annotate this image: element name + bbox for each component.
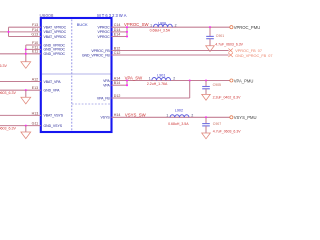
wire VPA pin B14 stub xyxy=(112,84,128,86)
value C905 2.2uF_0402_6.3V xyxy=(213,95,241,99)
part value MT6323WA xyxy=(97,13,127,18)
U6008 right pin numbers xyxy=(114,23,121,117)
svg-text:1: 1 xyxy=(166,113,168,117)
ground C901 xyxy=(206,46,215,52)
svg-text:L901: L901 xyxy=(157,73,165,77)
U6008 left pin numbers xyxy=(31,23,38,125)
wire VPROC_FB pin B12 xyxy=(112,49,229,51)
junction GND_VPROC E11 xyxy=(25,53,27,55)
svg-text:6.3V: 6.3V xyxy=(0,64,7,68)
svg-text:2: 2 xyxy=(175,23,177,27)
svg-text:U6008: U6008 xyxy=(40,13,54,18)
ground C905 xyxy=(202,94,211,100)
svg-text:4.7uF_0603_6.3V: 4.7uF_0603_6.3V xyxy=(215,42,243,46)
pin 2 L902 xyxy=(191,113,193,117)
svg-text:VPA: VPA xyxy=(103,79,110,83)
value L901 2.2uH_1.76A xyxy=(147,82,168,86)
U6008 right pin names xyxy=(82,26,110,120)
svg-text:GND_VPROC_FB: GND_VPROC_FB xyxy=(82,53,110,57)
IC U6008 MT6323WA PMIC body xyxy=(41,18,112,132)
svg-text:H13: H13 xyxy=(32,111,39,115)
svg-text:2.2uH_1.76A: 2.2uH_1.76A xyxy=(147,82,168,86)
svg-text:VBAT_VPROC: VBAT_VPROC xyxy=(44,26,67,30)
svg-text:C905: C905 xyxy=(213,83,221,87)
svg-text:0.68uH_3.5A: 0.68uH_3.5A xyxy=(168,122,189,126)
wire GND_VPROC pin F11 xyxy=(26,48,41,50)
svg-text:VPA_SW: VPA_SW xyxy=(125,76,144,81)
svg-text:D12: D12 xyxy=(114,94,121,98)
svg-text:F10: F10 xyxy=(32,41,38,45)
svg-text:1: 1 xyxy=(149,77,151,81)
svg-text:F13: F13 xyxy=(32,23,38,27)
net label VPA_SW xyxy=(125,76,144,81)
wire VPA right vertical join xyxy=(126,81,128,86)
svg-text:0603_6.3V: 0603_6.3V xyxy=(0,127,16,131)
junction VPA B14 xyxy=(126,84,128,86)
value L900 0.68uH_3.5A xyxy=(150,28,171,32)
svg-text:GND_VPROC: GND_VPROC xyxy=(44,52,66,56)
off-page connector GND_VPROC_FB xyxy=(228,53,232,57)
wire GND_VPA ground stem xyxy=(25,90,27,97)
wire VPA output net xyxy=(112,79,230,81)
junction VPA A14 xyxy=(126,79,128,81)
wire VPROC pin D14 stub xyxy=(112,31,128,33)
junction GND_VPROC F11 xyxy=(25,48,27,50)
svg-text:G11: G11 xyxy=(32,122,39,126)
ground GND_VSYS xyxy=(21,132,31,139)
svg-text:0.68uH_3.5A: 0.68uH_3.5A xyxy=(150,28,171,32)
junction VPA feedback xyxy=(189,79,191,81)
pin 1 L902 xyxy=(166,113,168,117)
off-page connector VPROC_PMU xyxy=(230,26,233,29)
svg-text:GND_VPROC: GND_VPROC xyxy=(44,48,66,52)
cap value fragment 0603_6.3V VPA xyxy=(0,91,16,95)
cap value fragment 6.3V xyxy=(0,64,7,68)
svg-text:VPA_FB: VPA_FB xyxy=(97,96,110,100)
junction VPROC D14 xyxy=(126,31,128,33)
U6008 section divider VPA/VSYS xyxy=(72,103,111,105)
pin 1 L901 xyxy=(149,77,151,81)
svg-text:VSYS: VSYS xyxy=(101,116,111,120)
inductor L901 xyxy=(152,78,171,81)
ground GND_VPROC xyxy=(21,62,31,69)
svg-text:BUCK: BUCK xyxy=(77,22,88,27)
inductor L900 xyxy=(154,24,173,27)
net label VPROC_FB 07 xyxy=(235,49,262,53)
svg-text:4.7uF_0603_6.3V: 4.7uF_0603_6.3V xyxy=(213,129,241,133)
off-page connector VSYS_PMU xyxy=(230,116,233,119)
svg-text:2: 2 xyxy=(173,77,175,81)
U6008 left pin names xyxy=(44,26,67,128)
svg-text:F14: F14 xyxy=(32,28,38,32)
junction VPROC E14 xyxy=(126,35,128,37)
net label GND_VPROC_FB 07 xyxy=(235,54,272,58)
U6008 internal section divider vertical xyxy=(71,20,73,131)
svg-text:A12: A12 xyxy=(32,77,38,81)
svg-text:F11: F11 xyxy=(32,45,38,49)
wire VPROC right vertical join xyxy=(126,27,128,36)
wire VBAT_VPROC pin G13 xyxy=(9,35,41,37)
junction VBAT_VPROC xyxy=(7,31,9,33)
wire VPROC pin E14 stub xyxy=(112,35,128,37)
refdes L902 xyxy=(175,109,183,113)
svg-text:VBAT_VPROC: VBAT_VPROC xyxy=(44,35,67,39)
pin 2 L900 xyxy=(175,23,177,27)
junction GND_VPA xyxy=(25,89,27,91)
junction GND_VSYS xyxy=(25,125,27,127)
svg-text:E13: E13 xyxy=(32,86,38,90)
value C907 4.7uF_0603_6.3V xyxy=(213,129,241,133)
wire GND_VSYS pin G11 xyxy=(0,125,41,127)
svg-text:E14: E14 xyxy=(114,32,120,36)
svg-text:L902: L902 xyxy=(175,109,183,113)
net label VSYS_PMU xyxy=(234,115,257,120)
svg-text:2: 2 xyxy=(191,113,193,117)
svg-text:VPROC_FB 07: VPROC_FB 07 xyxy=(235,49,262,53)
junction VPROC cap tap xyxy=(209,26,211,28)
svg-text:0603_6.3V: 0603_6.3V xyxy=(0,91,16,95)
svg-text:VPROC_FB: VPROC_FB xyxy=(91,49,110,53)
svg-text:VPA: VPA xyxy=(103,84,110,88)
wire VPA_FB vertical xyxy=(189,81,191,99)
value L902 0.68uH_3.5A xyxy=(168,122,189,126)
svg-text:A14: A14 xyxy=(114,76,120,80)
wire GND_VPROC vertical join xyxy=(25,45,27,62)
capacitor C907 xyxy=(202,117,210,133)
wire GND_VPROC pin E11 from edge xyxy=(0,53,41,55)
wire GND_VPROC pin F10 xyxy=(26,44,41,46)
svg-text:B12: B12 xyxy=(114,46,120,50)
ground C907 xyxy=(202,133,211,139)
svg-text:C907: C907 xyxy=(213,122,221,126)
svg-text:VBAT_VPROC: VBAT_VPROC xyxy=(44,30,67,34)
svg-text:VBAT_VPA: VBAT_VPA xyxy=(44,80,62,84)
ground GND_VPA xyxy=(21,97,31,104)
svg-text:VSYS_PMU: VSYS_PMU xyxy=(234,115,257,120)
off-page connector VPA_PMU xyxy=(230,79,233,82)
svg-text:GND_VPA: GND_VPA xyxy=(44,89,61,93)
junction VSYS cap tap xyxy=(205,116,207,118)
cap value fragment 0603_6.3V VSYS xyxy=(0,127,16,131)
wire VSYS output net xyxy=(112,116,230,118)
refdes L901 xyxy=(157,73,165,77)
svg-text:1: 1 xyxy=(150,23,152,27)
capacitor C905 xyxy=(202,81,210,95)
U6008 section divider VPROC/VPA xyxy=(42,73,111,75)
svg-text:D14: D14 xyxy=(114,28,121,32)
refdes U6008 xyxy=(40,13,54,18)
svg-text:GND_VPROC: GND_VPROC xyxy=(44,43,66,47)
inductor L902 xyxy=(170,115,189,118)
value C901 4.7uF_0603_6.3V xyxy=(215,42,243,46)
svg-text:2.2uF_0402_6.3V: 2.2uF_0402_6.3V xyxy=(213,95,241,99)
svg-text:E11: E11 xyxy=(32,50,38,54)
svg-text:L900: L900 xyxy=(158,21,166,25)
pin 1 L900 xyxy=(150,23,152,27)
wire GND_VPA pin E13 xyxy=(0,89,41,91)
svg-text:C12: C12 xyxy=(114,51,121,55)
svg-text:VPROC: VPROC xyxy=(98,26,111,30)
wire VBAT_VSYS pin H13 xyxy=(0,114,41,116)
net label VPROC_PMU xyxy=(234,25,261,30)
svg-text:VPROC_SW: VPROC_SW xyxy=(124,22,150,27)
svg-text:C901: C901 xyxy=(216,34,224,38)
svg-text:B14: B14 xyxy=(114,81,120,85)
svg-text:VPROC: VPROC xyxy=(98,30,111,34)
off-page connector VPROC_FB xyxy=(228,49,232,53)
svg-text:C14: C14 xyxy=(114,23,121,27)
svg-text:H14: H14 xyxy=(114,113,121,117)
wire GND_VPROC_FB pin C12 xyxy=(112,54,229,56)
wire VBAT_VPROC left vertical join xyxy=(7,27,9,36)
svg-text:VSYS_SW: VSYS_SW xyxy=(125,112,147,117)
pin 2 L901 xyxy=(173,77,175,81)
svg-text:G13: G13 xyxy=(31,32,38,36)
refdes L900 xyxy=(158,21,166,25)
wire VPROC output net xyxy=(112,26,230,28)
svg-text:VPA_PMU: VPA_PMU xyxy=(234,78,254,83)
wire VPA_FB pin D12 xyxy=(112,97,190,99)
net label VPA_PMU xyxy=(234,78,254,83)
svg-text:VPROC: VPROC xyxy=(98,35,111,39)
junction VPA cap tap xyxy=(205,79,207,81)
junction VPROC C14 xyxy=(126,26,128,28)
refdes C901 xyxy=(216,34,224,38)
svg-text:GND_VPROC_FB 07: GND_VPROC_FB 07 xyxy=(235,54,272,58)
svg-text:VPROC_PMU: VPROC_PMU xyxy=(234,25,261,30)
svg-text:VBAT_VSYS: VBAT_VSYS xyxy=(44,114,64,118)
wire VBAT_VPROC pin F13 xyxy=(9,26,41,28)
wire VBAT_VPROC pin F14 from edge xyxy=(0,31,41,33)
refdes C905 xyxy=(213,83,221,87)
net label VPROC_SW xyxy=(124,22,150,27)
svg-text:GND_VSYS: GND_VSYS xyxy=(44,124,63,128)
refdes C907 xyxy=(213,122,221,126)
wire VBAT_VPA pin A12 xyxy=(0,80,41,82)
wire GND_VSYS ground stem xyxy=(25,126,27,132)
svg-text:MT6323WA: MT6323WA xyxy=(97,13,127,18)
net label VSYS_SW xyxy=(125,112,147,117)
section label BUCK xyxy=(77,22,88,27)
capacitor C901 xyxy=(206,27,214,46)
